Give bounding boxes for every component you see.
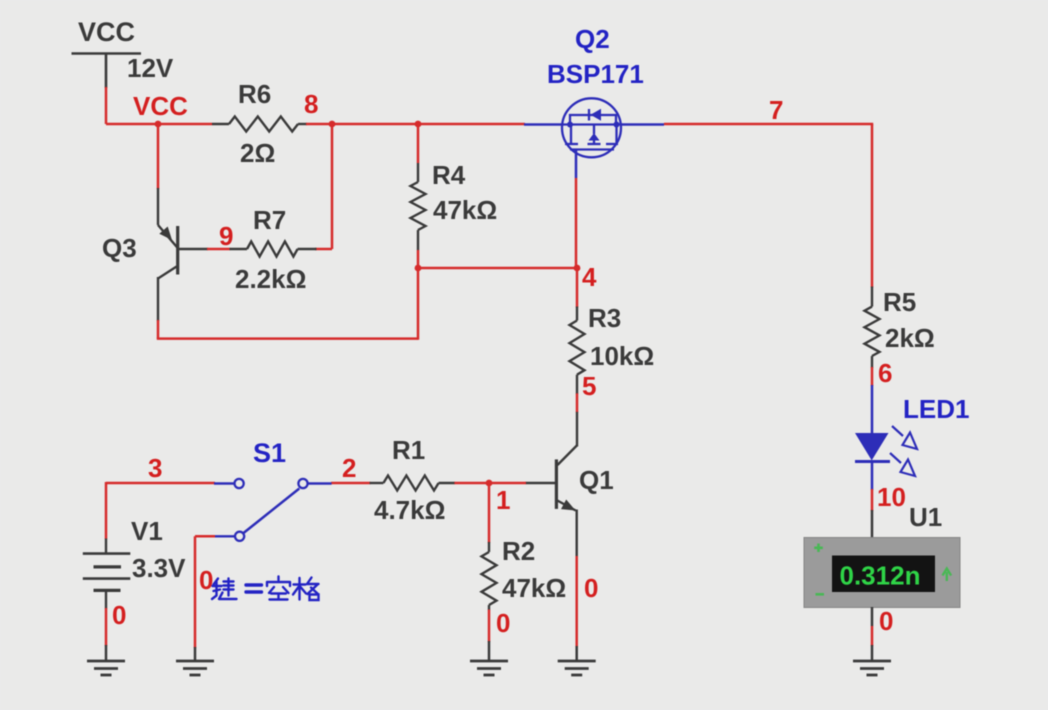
resistor R4 [417, 163, 419, 182]
wire node 4 to R3 [576, 268, 579, 308]
node 8 vertical wire [331, 124, 334, 249]
ground (Q1) [558, 660, 596, 663]
svg-text:47kΩ: 47kΩ [433, 195, 497, 225]
wire node 5 [576, 393, 579, 412]
wire VCC rail left [106, 123, 212, 126]
svg-text:0: 0 [112, 600, 126, 630]
text key = space [212, 577, 319, 601]
wire U1 top lead [871, 510, 874, 538]
wire LED anode blue [871, 385, 874, 434]
svg-text:VCC: VCC [133, 91, 188, 121]
wire Q2 gate red [575, 178, 578, 268]
svg-text:2: 2 [342, 453, 356, 483]
wire gate blue left [524, 123, 563, 126]
wire node 9 [207, 248, 230, 251]
svg-text:2kΩ: 2kΩ [885, 323, 935, 353]
wire node 1 vertical [488, 483, 491, 543]
transistor Q1 [576, 412, 578, 447]
resistor R2 [488, 542, 490, 552]
svg-text:LED1: LED1 [903, 394, 969, 424]
svg-text:Q3: Q3 [102, 233, 137, 263]
svg-text:0: 0 [879, 606, 893, 636]
wire Q1 ground lead [575, 646, 578, 661]
wire node 2 [331, 482, 371, 485]
svg-text:S1: S1 [253, 438, 286, 468]
wire Q1 emitter net 0 [575, 556, 578, 647]
resistor R7 [230, 248, 248, 250]
wire Q2 gate lead blue [575, 150, 578, 179]
resistor R1 [370, 482, 384, 484]
svg-text:R2: R2 [502, 536, 535, 566]
svg-text:8: 8 [304, 89, 318, 119]
svg-text:U1: U1 [909, 502, 942, 532]
led light arrow 1 [892, 426, 917, 449]
ammeter arrow mark [943, 569, 952, 582]
wire R4 top stub [417, 124, 420, 163]
svg-text:3.3V: 3.3V [132, 553, 186, 583]
transistor Q3 [157, 188, 159, 225]
ground (V1) [87, 660, 125, 663]
svg-text:47kΩ: 47kΩ [502, 573, 566, 603]
resistor R6 [212, 123, 229, 125]
wire V1 minus net 0 [105, 608, 108, 646]
svg-text:4.7kΩ: 4.7kΩ [374, 495, 445, 525]
wire R2 net 0 [488, 610, 491, 643]
ammeter plus mark [814, 544, 823, 553]
node R4 top junction dot [415, 121, 422, 128]
svg-text:12V: 12V [127, 53, 174, 83]
wire Q3 collector to node 4 [157, 320, 160, 339]
wire R2 ground lead [488, 641, 491, 661]
wire V1 ground lead [105, 645, 108, 661]
svg-text:0: 0 [496, 608, 510, 638]
wire VCC stub [105, 87, 108, 124]
ammeter U1 body [804, 538, 960, 608]
wire node 6 [871, 367, 874, 386]
resistor R3 [576, 307, 578, 321]
wire node 0 ammeter [871, 626, 874, 646]
ground (R2) [470, 660, 508, 663]
ammeter minus mark [816, 593, 825, 596]
wire ground lead right [871, 645, 874, 661]
svg-text:1: 1 [496, 485, 510, 515]
svg-text:R5: R5 [883, 287, 916, 317]
svg-text:V1: V1 [131, 516, 163, 546]
wire rail to Q2 [418, 123, 525, 126]
wire node 8 horizontal [306, 123, 418, 126]
battery V1 [105, 539, 107, 555]
svg-text:2.2kΩ: 2.2kΩ [235, 264, 306, 294]
svg-text:3: 3 [148, 453, 162, 483]
svg-text:2Ω: 2Ω [240, 138, 275, 168]
ground (S1) [176, 660, 214, 663]
svg-text:R6: R6 [238, 79, 271, 109]
wire node 7 [664, 123, 873, 126]
node R4 bottom junction dot [415, 265, 422, 272]
svg-text:10kΩ: 10kΩ [590, 341, 654, 371]
svg-text:0: 0 [584, 573, 598, 603]
wire U1 bottom lead [871, 607, 874, 626]
svg-text:Q1: Q1 [579, 465, 614, 495]
wire Q2 drain blue [621, 123, 665, 126]
wire switch bottom [195, 535, 215, 538]
resistor R5 [871, 287, 873, 307]
svg-text:Q2: Q2 [575, 24, 610, 54]
svg-text:4: 4 [582, 262, 597, 292]
wire node 1 [454, 482, 526, 485]
svg-text:5: 5 [582, 371, 596, 401]
svg-text:6: 6 [878, 358, 892, 388]
svg-text:R7: R7 [253, 205, 286, 235]
wire node 3 [106, 482, 215, 485]
led light arrow 2 [890, 453, 915, 476]
ground (U1) [853, 660, 891, 663]
wire R4 bottom stub [417, 250, 420, 268]
svg-text:0.312n: 0.312n [840, 561, 921, 591]
power symbol VCC 12V [72, 52, 142, 55]
node 4 junction dot [574, 265, 581, 272]
svg-text:VCC: VCC [78, 17, 135, 47]
svg-text:9: 9 [219, 221, 233, 251]
node VCC junction dot [155, 121, 162, 128]
node 8 junction dot [329, 121, 336, 128]
svg-text:R3: R3 [588, 303, 621, 333]
svg-text:7: 7 [769, 95, 783, 125]
svg-text:10: 10 [877, 482, 906, 512]
switch S1 [214, 482, 234, 484]
wire Q3 emitter [157, 124, 160, 189]
wire node 10 red [871, 489, 874, 511]
svg-text:R4: R4 [432, 160, 466, 190]
node 1 junction dot [486, 480, 493, 487]
wire S1 ground lead [194, 647, 197, 661]
wire to R7 right [315, 248, 332, 251]
svg-text:0: 0 [199, 565, 213, 595]
mosfet Q2 symbol [562, 98, 621, 157]
svg-text:R1: R1 [392, 435, 425, 465]
wire V1 plus [105, 482, 108, 539]
svg-text:BSP171: BSP171 [547, 59, 644, 89]
led LED1 [855, 433, 889, 460]
